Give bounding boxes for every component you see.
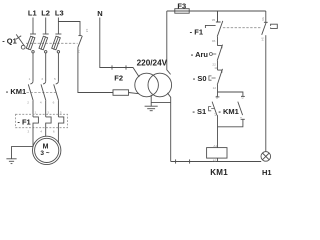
contactor KM1 main contact pole 2: [40, 77, 46, 105]
wire top rail to F1 97-98 contact: [265, 11, 267, 22]
breaker Q1 pole 1: [26, 34, 36, 53]
wire F1 to Aru: [217, 37, 219, 46]
svg-text:N: N: [97, 9, 102, 18]
svg-text:2: 2: [28, 130, 30, 134]
wire Aru to S0: [217, 61, 219, 70]
svg-text:KM1: KM1: [210, 168, 228, 177]
terminal tick: [125, 65, 127, 69]
svg-text:L2: L2: [41, 9, 50, 18]
svg-text:13: 13: [85, 29, 89, 33]
svg-text:H1: H1: [262, 168, 272, 177]
stop button S0 contact (NC): [217, 69, 222, 85]
svg-text:L3: L3: [55, 9, 64, 18]
terminal tick: [189, 159, 191, 163]
wire KM1 to F1 pole 3: [57, 101, 59, 117]
ground (motor PE): [6, 159, 16, 164]
svg-text:14: 14: [239, 117, 243, 121]
wire KM1 to F1 pole 2: [45, 101, 47, 117]
svg-text:13: 13: [241, 95, 245, 99]
lamp H1: [261, 152, 271, 162]
wire tap to KM1 aux branch: [218, 92, 243, 96]
wire KM1 aux branch bottom: [218, 119, 243, 127]
transformer T1 primary winding: [135, 73, 159, 97]
svg-text:- Q1: - Q1: [2, 37, 17, 46]
svg-text:A2: A2: [213, 158, 217, 162]
svg-text:53: 53: [261, 17, 265, 21]
svg-text:11: 11: [214, 66, 217, 70]
thermal overload relay F1 dashed box: [16, 114, 68, 127]
thermal relay F1 mechanical link (dashed): [223, 27, 262, 29]
svg-text:4: 4: [40, 130, 42, 134]
terminal tick: [175, 159, 177, 163]
breaker Q1 auxiliary contact: [76, 29, 88, 54]
wire L2 to KM1: [45, 53, 47, 81]
svg-text:2: 2: [27, 101, 29, 105]
svg-text:F2: F2: [114, 74, 123, 83]
svg-text:3: 3: [47, 110, 49, 114]
wire L3 drop: [57, 18, 59, 34]
wire F1 to motor pole 2: [45, 128, 47, 137]
svg-text:1: 1: [35, 110, 37, 114]
svg-text:L1: L1: [28, 9, 37, 18]
thermal element F1 pole 3: [53, 110, 64, 133]
contact F1 97-98 (NO, signalling): [262, 22, 268, 35]
svg-text:- S0: - S0: [193, 74, 207, 83]
wire F1 to motor pole 3: [57, 128, 59, 144]
start button S1 contact (NO): [212, 97, 219, 115]
svg-text:96: 96: [212, 39, 216, 43]
wire F2 to transformer primary: [129, 93, 139, 94]
svg-text:54: 54: [261, 37, 265, 41]
svg-text:- Aru: - Aru: [191, 50, 209, 59]
wire L1 drop: [32, 18, 34, 34]
breaker Q1 mechanical link (dashed): [26, 42, 78, 44]
svg-text:3: 3: [41, 77, 43, 81]
svg-text:F3: F3: [177, 2, 186, 11]
svg-text:- KM1: - KM1: [218, 107, 238, 116]
emergency stop Aru actuator: [209, 53, 216, 56]
svg-text:1: 1: [29, 77, 31, 81]
contactor KM1 auxiliary contact (NO): [238, 96, 245, 119]
svg-text:6: 6: [53, 101, 55, 105]
wire S1 to coil KM1: [217, 115, 219, 148]
svg-text:95: 95: [212, 18, 216, 22]
wire L1 to KM1: [32, 53, 34, 81]
svg-text:12: 12: [213, 86, 217, 90]
wire F1 97-98 to lamp H1: [265, 35, 267, 151]
wire control column top: [217, 11, 219, 22]
wire transformer secondary bottom: [167, 93, 170, 162]
svg-text:- KM1: - KM1: [6, 87, 26, 96]
wire Q1 aux to fuse F2: [78, 47, 113, 92]
wire KM1 to F1 pole 1: [32, 101, 34, 117]
wire L2 drop: [45, 18, 47, 34]
svg-text:14: 14: [76, 50, 80, 54]
breaker Q1 actuator: [16, 34, 25, 49]
svg-text:4: 4: [40, 101, 42, 105]
wire control top rail: [167, 10, 266, 12]
thermal relay trip symbol: [271, 24, 278, 28]
svg-text:5: 5: [60, 110, 62, 114]
emergency stop Aru contact (NC): [217, 45, 222, 61]
svg-text:- F1: - F1: [17, 118, 30, 127]
wire F1 to motor pole 1: [32, 128, 34, 147]
wire coil KM1 to bottom rail: [217, 158, 219, 161]
svg-text:5: 5: [54, 77, 56, 81]
wire S0 to S1 and tap junction: [217, 85, 219, 97]
svg-text:14: 14: [214, 113, 218, 117]
svg-text:- S1: - S1: [192, 107, 206, 116]
breaker Q1 pole 3: [52, 34, 62, 53]
wire transformer earth tap: [151, 95, 171, 106]
breaker Q1 pole 2: [39, 34, 49, 53]
thermal element F1 pole 1: [28, 110, 39, 133]
svg-text:220/24V: 220/24V: [137, 58, 168, 67]
contact F1 95-96 (NC): [205, 11, 222, 37]
svg-text:6: 6: [53, 130, 55, 134]
svg-text:- F1: - F1: [190, 27, 203, 36]
fuse F2: [113, 90, 129, 96]
svg-text:3 ~: 3 ~: [40, 150, 49, 157]
contactor KM1 mechanical link (dashed): [27, 91, 57, 93]
ground (control circuit): [145, 106, 158, 111]
contactor KM1 main contact pole 1: [27, 77, 33, 105]
wire N to transformer primary: [100, 18, 139, 78]
thermal element F1 pole 2: [40, 110, 51, 133]
contactor KM1 main contact pole 3: [53, 77, 59, 105]
stop button S0 actuator: [209, 76, 216, 80]
wire control bottom rail: [171, 161, 262, 163]
start button S1 actuator: [209, 107, 214, 111]
fuse F3: [175, 9, 189, 14]
wire L3 tap to Q1 aux: [58, 22, 80, 36]
motor M1: [33, 136, 61, 164]
wire L3 to KM1: [57, 53, 59, 81]
wire transformer secondary top to F3: [167, 11, 171, 74]
coil KM1: [207, 148, 227, 159]
transformer T1 secondary winding: [148, 73, 172, 97]
terminal tick: [111, 65, 113, 69]
wire motor PE: [12, 147, 33, 159]
